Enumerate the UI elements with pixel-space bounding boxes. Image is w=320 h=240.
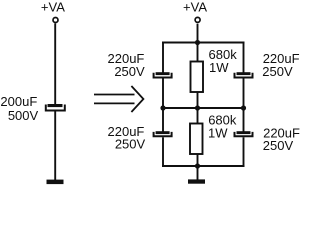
svg-text:250V: 250V: [262, 64, 293, 79]
svg-text:250V: 250V: [263, 138, 294, 153]
svg-text:1W: 1W: [208, 126, 228, 141]
svg-text:1W: 1W: [209, 60, 229, 75]
svg-text:+VA: +VA: [183, 0, 207, 15]
svg-text:+VA: +VA: [41, 0, 65, 15]
svg-text:250V: 250V: [114, 64, 145, 79]
svg-text:500V: 500V: [8, 108, 39, 123]
svg-text:250V: 250V: [115, 136, 146, 151]
